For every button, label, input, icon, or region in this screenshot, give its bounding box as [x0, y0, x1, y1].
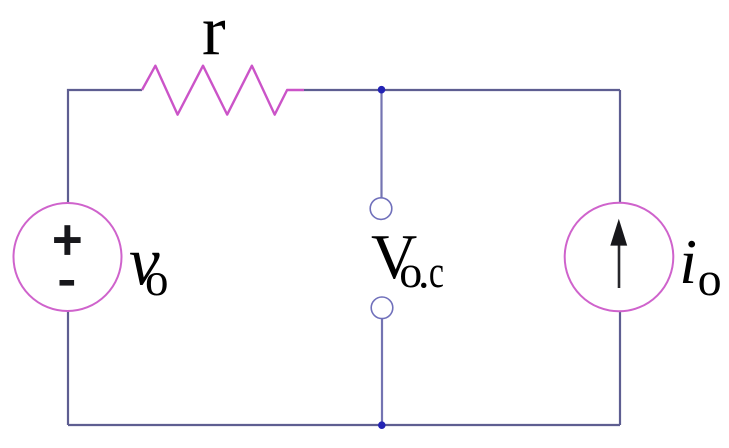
wire right vertical upper	[619, 90, 621, 204]
svg-text:c: c	[429, 246, 444, 297]
wire middle vertical lower	[381, 319, 383, 425]
wire top-right from resistor to top-right corner	[304, 89, 620, 91]
current source arrow stem	[618, 243, 621, 288]
svg-text:o: o	[698, 253, 722, 306]
wire left vertical lower	[67, 311, 69, 425]
svg-text:.: .	[418, 247, 430, 298]
svg-text:i: i	[679, 226, 697, 297]
wire top-left from voltage source corner to resistor	[68, 90, 142, 203]
voltage source circle	[14, 203, 122, 311]
node junction dot top	[378, 86, 386, 94]
current source arrow head	[610, 219, 627, 246]
voltage source minus sign	[60, 280, 75, 286]
wire right vertical lower	[619, 311, 621, 425]
svg-text:r: r	[202, 0, 226, 70]
wire middle vertical upper	[380, 90, 382, 198]
open-circuit terminal top	[370, 198, 392, 220]
wire bottom	[68, 424, 620, 426]
node junction dot bottom	[378, 421, 386, 429]
resistor r	[142, 66, 304, 115]
open-circuit terminal bottom	[371, 297, 393, 319]
voltage source plus sign	[54, 225, 81, 255]
current source circle	[565, 203, 674, 312]
svg-text:o: o	[145, 254, 169, 306]
